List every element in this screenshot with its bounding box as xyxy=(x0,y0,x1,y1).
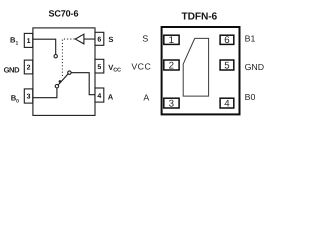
svg-text:2: 2 xyxy=(27,65,31,72)
pin 6 box xyxy=(95,32,104,45)
pad 1 box xyxy=(164,35,179,44)
IC body U2 (TDFN-6 outline) xyxy=(162,27,240,114)
svg-text:6: 6 xyxy=(224,35,229,46)
svg-text:A: A xyxy=(108,93,114,102)
svg-text:1: 1 xyxy=(27,38,31,45)
pin 3 box xyxy=(24,89,32,103)
svg-text:5: 5 xyxy=(224,60,229,71)
driver buffer U1a (triangle) xyxy=(75,34,84,44)
svg-text:2: 2 xyxy=(169,60,174,71)
dashed control line from buffer to switch xyxy=(62,39,74,76)
svg-text:GND: GND xyxy=(4,66,20,75)
svg-text:1: 1 xyxy=(169,35,174,46)
pad 6 box xyxy=(220,35,234,44)
pad 5 box xyxy=(220,60,234,70)
pin 1 box xyxy=(24,33,32,47)
pin 5 box xyxy=(95,59,104,73)
node: B0 throw terminal (open circle) xyxy=(55,85,58,88)
svg-text:S: S xyxy=(108,35,113,44)
svg-text:A: A xyxy=(143,93,149,103)
junction dot on lever (control attach) xyxy=(59,80,62,83)
svg-text:VCC: VCC xyxy=(108,63,121,73)
svg-text:B0: B0 xyxy=(245,92,256,102)
svg-text:B1: B1 xyxy=(245,34,256,44)
svg-text:3: 3 xyxy=(169,98,174,109)
wire: pin4 A to switch pole terminal xyxy=(71,73,95,95)
svg-text:SC70-6: SC70-6 xyxy=(48,9,78,19)
pad 4 box xyxy=(220,98,234,108)
svg-text:S: S xyxy=(142,34,148,44)
switch lever SW1 (pole A to throw B0) xyxy=(58,74,68,85)
svg-text:4: 4 xyxy=(97,93,101,100)
svg-text:GND: GND xyxy=(245,62,265,72)
svg-text:TDFN-6: TDFN-6 xyxy=(181,12,217,23)
pin 2 box xyxy=(24,60,32,74)
svg-text:3: 3 xyxy=(27,94,31,101)
svg-text:4: 4 xyxy=(224,98,230,109)
node: A pole terminal (open circle) xyxy=(68,71,71,74)
node: B1 throw terminal (open circle) xyxy=(54,55,57,58)
IC body U1 (SC70-6 outline) xyxy=(33,28,95,116)
wire: pin3 B0 to switch throw terminal xyxy=(33,88,57,98)
svg-text:B1: B1 xyxy=(10,36,18,47)
svg-text:VCC: VCC xyxy=(131,61,151,71)
wire: buffer output to pin6 S xyxy=(84,38,95,40)
pad 3 box xyxy=(164,98,179,108)
svg-text:6: 6 xyxy=(97,36,101,43)
wire: pin1 B1 to switch throw terminal xyxy=(33,39,56,54)
die attach pad (chamfered) xyxy=(183,38,208,96)
pin 4 box xyxy=(95,88,104,102)
svg-text:5: 5 xyxy=(97,64,101,71)
svg-text:B0: B0 xyxy=(11,94,19,105)
pad 2 box xyxy=(164,60,179,70)
